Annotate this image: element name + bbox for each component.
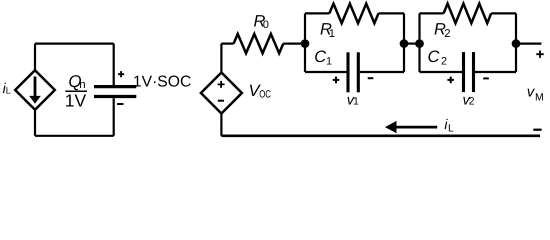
wire: R0 to node xyxy=(283,42,305,44)
wire: left loop left lower xyxy=(34,110,36,136)
svg-text:2: 2 xyxy=(444,28,450,40)
node dot at R0/RC1 junction xyxy=(301,39,310,48)
capacitor Qn/1V top plate xyxy=(94,85,136,88)
wire: RC2 top left xyxy=(420,12,444,14)
RC1 loop right vertical xyxy=(403,13,405,72)
plus sign at C1 xyxy=(333,77,340,84)
minus sign at SOC capacitor xyxy=(117,103,124,105)
RC2 loop left vertical xyxy=(418,13,420,72)
svg-text:C: C xyxy=(428,48,440,66)
current source arrowhead xyxy=(29,96,41,104)
wire: RC1 top left xyxy=(305,12,329,14)
wire: Voc bottom vertical xyxy=(220,114,222,136)
svg-text:1V: 1V xyxy=(65,91,87,111)
svg-text:2: 2 xyxy=(441,56,447,68)
minus sign at C1 xyxy=(368,77,374,79)
RC2 loop right vertical xyxy=(515,13,517,72)
node dot at RC1 right xyxy=(400,39,409,48)
svg-text:1V·SOC: 1V·SOC xyxy=(133,73,191,90)
svg-text:1: 1 xyxy=(326,56,332,68)
minus sign inside Voc xyxy=(218,100,224,102)
capacitor C1 right plate xyxy=(357,52,360,92)
svg-text:2: 2 xyxy=(469,96,475,108)
resistor R0 zigzag xyxy=(234,34,284,53)
svg-text:M: M xyxy=(535,92,544,104)
svg-text:1: 1 xyxy=(353,96,359,108)
wire: bottom rail xyxy=(221,135,540,138)
svg-text:L: L xyxy=(6,85,11,95)
wire: Voc top to R0 xyxy=(221,42,233,44)
svg-text:1: 1 xyxy=(329,28,335,40)
svg-text:n: n xyxy=(79,79,85,91)
wire: RC1 to RC2 xyxy=(404,42,420,44)
minus sign at output vM xyxy=(533,129,541,131)
resistor R2 zigzag xyxy=(444,4,492,24)
current arrow iL shaft xyxy=(396,126,437,129)
wire: left loop left upper xyxy=(34,44,36,71)
plus sign at SOC capacitor xyxy=(118,71,124,77)
plus sign at C2 xyxy=(447,77,454,84)
fraction bar xyxy=(65,90,87,92)
wire: left loop right lower xyxy=(113,98,115,136)
voltage source diamond Voc xyxy=(201,73,242,114)
capacitor C2 right plate xyxy=(472,52,475,92)
wire: left loop right upper xyxy=(113,44,115,85)
capacitor Qn/1V bottom plate xyxy=(94,95,136,98)
wire: Voc top vertical xyxy=(220,44,222,73)
minus sign at C2 xyxy=(483,77,489,79)
wire: RC2 bottom left xyxy=(420,71,463,73)
svg-text:C: C xyxy=(314,48,326,66)
wire: RC1 bottom right xyxy=(360,71,404,73)
node dot at RC2 left xyxy=(415,39,424,48)
wire: RC2 top right xyxy=(491,12,516,14)
current source arrow shaft xyxy=(34,77,37,98)
current arrow iL head xyxy=(385,121,397,133)
svg-text:0: 0 xyxy=(263,19,269,31)
svg-text:L: L xyxy=(448,122,454,134)
wire: RC2 bottom right xyxy=(475,71,516,73)
current source diamond (dependent, i_L) xyxy=(15,70,55,109)
wire: RC1 top right xyxy=(379,12,405,14)
wire: left loop top xyxy=(35,42,114,44)
plus sign inside Voc xyxy=(218,81,225,88)
wire: RC1 bottom left xyxy=(305,71,347,73)
node dot at RC2 right xyxy=(512,39,521,48)
resistor R1 zigzag xyxy=(329,4,378,24)
wire: left loop bottom xyxy=(35,135,114,137)
plus sign at output vM xyxy=(536,51,543,58)
capacitor C2 left plate xyxy=(462,52,465,92)
wire: output terminal top xyxy=(516,42,541,44)
RC1 loop left vertical xyxy=(304,13,306,72)
capacitor C1 left plate xyxy=(346,52,349,92)
svg-text:OC: OC xyxy=(259,89,271,101)
